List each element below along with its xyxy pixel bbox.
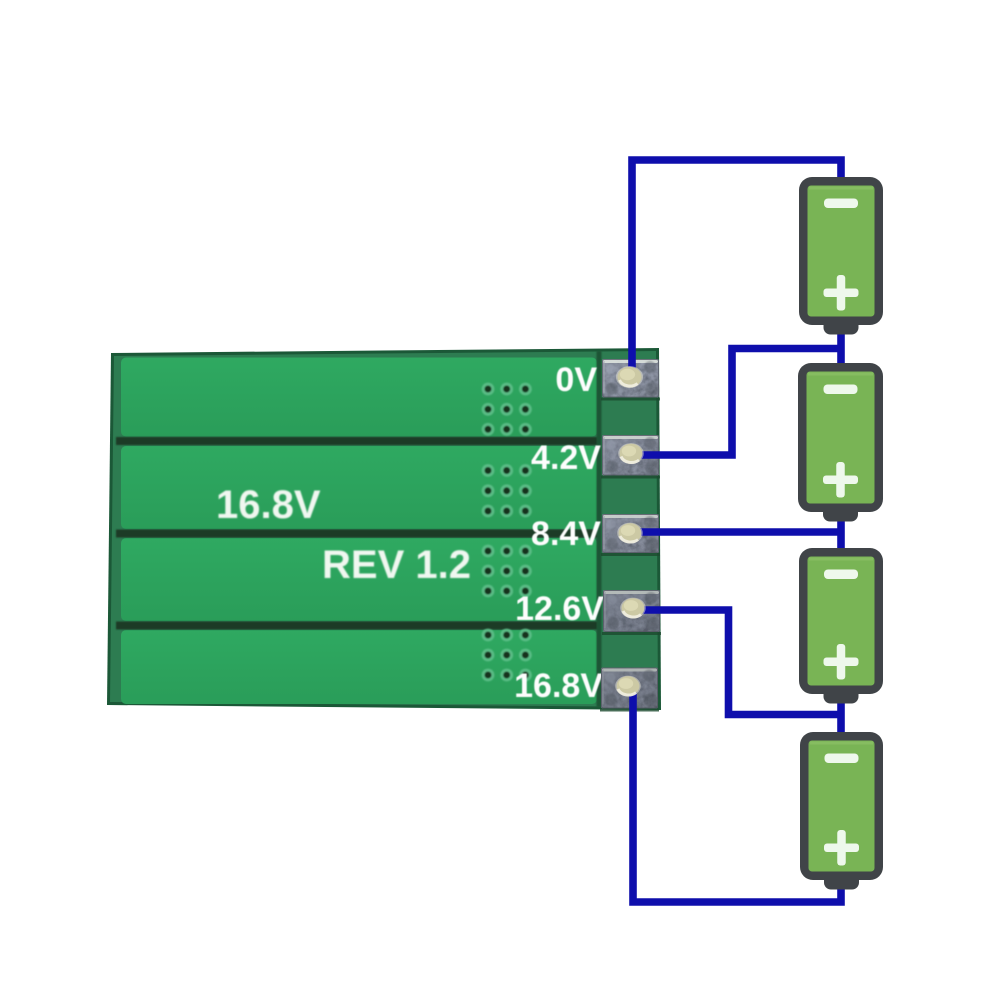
solder pad P4 (12.6V terminal) <box>602 590 661 635</box>
trace stripe T1 <box>121 358 597 437</box>
battery BT3 <box>799 548 883 704</box>
stripe separator S3 <box>116 622 599 630</box>
trace stripe T3 <box>121 538 597 621</box>
via grid G4 <box>482 629 532 682</box>
via grid G2 <box>482 464 532 517</box>
PCB board outline <box>107 348 661 710</box>
solder pad P1 (0V terminal) <box>601 359 660 401</box>
wire W4b: junction BT3/BT4 to pad P4 <box>642 610 841 715</box>
solder dome D2 <box>618 443 644 464</box>
battery BT1 <box>799 177 883 335</box>
svg-text:4.2V: 4.2V <box>531 439 601 477</box>
svg-text:8.4V: 8.4V <box>531 515 601 553</box>
svg-text:16.8V: 16.8V <box>216 483 321 527</box>
svg-text:16.8V: 16.8V <box>514 667 603 705</box>
wire W3b: junction BT2/BT3 to pad P3 <box>640 528 841 536</box>
svg-text:12.6V: 12.6V <box>515 590 604 628</box>
solder dome D1 <box>616 366 643 388</box>
via grid G3 <box>482 545 532 598</box>
wire W2b: junction BT1/BT2 to pad P2 <box>640 349 841 456</box>
PCB board base <box>110 351 658 707</box>
wire W1: pad P1 to battery BT1 negative <box>632 160 841 372</box>
trace stripe T4 <box>121 630 597 704</box>
wire W2a: battery BT1 positive to battery BT2 negative <box>837 326 845 368</box>
solder pad P3 (8.4V terminal) <box>601 514 660 556</box>
via grid G1 <box>482 383 532 436</box>
wire W4a: battery BT3 positive to battery BT4 negative <box>837 697 845 737</box>
battery BT2 <box>798 363 883 522</box>
trace stripe T2 <box>121 446 597 529</box>
solder pad P5 (16.8V terminal) <box>600 668 659 712</box>
solder pad P2 (4.2V terminal) <box>601 435 660 479</box>
svg-text:0V: 0V <box>555 361 597 399</box>
wire W3a: battery BT2 positive to battery BT3 negative <box>837 514 845 553</box>
stripe right edge shadow <box>597 351 602 707</box>
solder dome D4 <box>620 598 646 619</box>
stripe separator S1 <box>116 437 599 445</box>
battery BT4 <box>800 732 883 890</box>
stripe separator S2 <box>116 530 599 538</box>
solder dome D3 <box>617 523 643 544</box>
wire W5: battery BT4 positive to pad P5 <box>633 692 841 902</box>
svg-text:REV 1.2: REV 1.2 <box>322 543 471 587</box>
solder dome D5 <box>615 676 641 697</box>
